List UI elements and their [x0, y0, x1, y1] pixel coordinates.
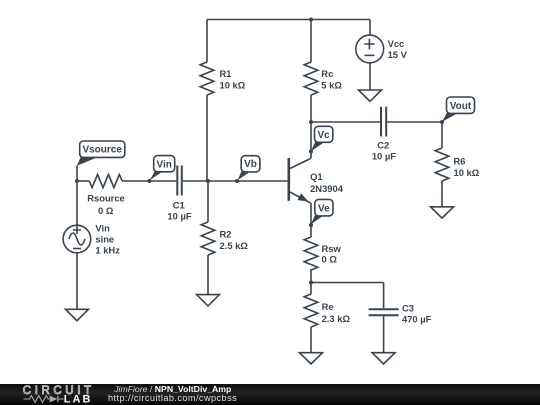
svg-text:10 kΩ: 10 kΩ	[220, 80, 246, 91]
svg-text:0 Ω: 0 Ω	[98, 205, 114, 216]
resistor Rc	[304, 62, 318, 95]
svg-text:Rsource: Rsource	[87, 193, 125, 204]
svg-text:0 Ω: 0 Ω	[322, 253, 338, 264]
svg-text:15 V: 15 V	[388, 49, 408, 60]
wire C2 to Vout node	[387, 121, 442, 123]
svg-text:2.5 kΩ: 2.5 kΩ	[220, 240, 249, 251]
voltage source Vin (sine)	[63, 225, 91, 253]
resistor Rsource	[89, 174, 122, 187]
wire R6 top lead	[441, 122, 443, 148]
capacitor C1	[177, 166, 182, 196]
node flag Vb	[238, 156, 260, 181]
svg-text:R1: R1	[220, 68, 232, 79]
wire C3 bottom lead	[383, 316, 385, 353]
resistor Re	[304, 294, 318, 327]
svg-text:Vb: Vb	[244, 159, 257, 170]
wire Rsource to C1	[122, 180, 176, 182]
junction node Vsource	[75, 179, 79, 183]
junction top rail / Rc	[309, 18, 313, 22]
svg-text:2.3 kΩ: 2.3 kΩ	[322, 313, 351, 324]
wire base (Vb node to Q1 base)	[208, 180, 289, 182]
svg-text:470 µF: 470 µF	[402, 314, 432, 325]
wire Vcc top lead	[369, 20, 371, 36]
svg-text:LAB: LAB	[64, 394, 93, 405]
wire R2 bottom lead	[207, 255, 209, 295]
wire R2 top lead	[207, 181, 209, 222]
node flag Vin	[150, 156, 175, 181]
ground under Re	[300, 353, 323, 364]
wire Vcc bottom lead	[369, 63, 371, 91]
capacitor C2	[381, 107, 386, 137]
ground under R2	[197, 295, 220, 306]
svg-text:Rsw: Rsw	[322, 243, 342, 254]
svg-text:Ve: Ve	[318, 203, 330, 214]
svg-text:10 kΩ: 10 kΩ	[454, 167, 480, 178]
wire emitter vertical	[310, 203, 312, 237]
wire Rsw bottom lead	[310, 269, 312, 283]
wire Vc node to C2	[311, 121, 380, 123]
ground under Vin source	[66, 309, 89, 320]
resistor R1	[200, 62, 214, 95]
wire top rail	[207, 19, 370, 21]
wire Rc bottom lead	[310, 95, 312, 122]
wire Vin source to ground	[76, 253, 78, 310]
svg-text:Vc: Vc	[317, 130, 330, 141]
svg-text:10 µF: 10 µF	[167, 210, 191, 221]
wire left node to Rsource	[77, 180, 89, 182]
wire Re node to C3	[311, 282, 384, 284]
svg-text:C3: C3	[402, 302, 414, 313]
junction Vc flag attach	[309, 150, 313, 154]
node flag Vsource	[77, 141, 125, 166]
junction node Vb (R1/R2 divider tap)	[206, 179, 210, 183]
wire R1 top lead	[206, 20, 208, 63]
svg-text:C2: C2	[377, 139, 389, 150]
svg-text:Re: Re	[322, 301, 334, 312]
wire R6 bottom lead	[441, 181, 443, 207]
node flag Vc	[311, 126, 333, 151]
ground under R6	[431, 207, 454, 218]
svg-text:R6: R6	[454, 155, 466, 166]
wire Vsource down to Vin source	[76, 181, 78, 226]
svg-text:2N3904: 2N3904	[310, 183, 344, 194]
wire R1 bottom lead	[206, 95, 208, 181]
node flag Vout	[442, 97, 474, 122]
wire Re bottom lead	[310, 327, 312, 353]
svg-text:Rc: Rc	[321, 68, 333, 79]
svg-text:Vin: Vin	[157, 159, 172, 170]
wire Rc drop from rail	[310, 20, 312, 63]
resistor Rsw	[304, 237, 318, 270]
svg-text:Vcc: Vcc	[388, 38, 405, 49]
junction node Vc	[309, 120, 313, 124]
svg-text:Vsource: Vsource	[82, 145, 122, 156]
wire C1 to Vb node	[183, 180, 208, 182]
wire C3 top lead	[383, 283, 385, 309]
resistor R2	[201, 222, 215, 255]
svg-text:sine: sine	[95, 234, 114, 245]
svg-text:1 kHz: 1 kHz	[95, 245, 120, 256]
svg-text:R2: R2	[220, 228, 232, 239]
ground under Vcc	[359, 90, 382, 101]
ground under C3	[372, 353, 395, 364]
junction node Vout	[440, 120, 444, 124]
svg-text:C1: C1	[173, 199, 185, 210]
svg-text:http://circuitlab.com/cwpcbss: http://circuitlab.com/cwpcbss	[108, 393, 237, 403]
wire Re top lead	[310, 283, 312, 295]
junction Vb flag attach	[235, 179, 239, 183]
resistor R6	[435, 148, 449, 181]
wire collector vertical	[310, 122, 312, 159]
svg-text:Vin: Vin	[95, 222, 110, 233]
svg-text:5 kΩ: 5 kΩ	[321, 80, 342, 91]
voltage source Vcc	[356, 35, 384, 63]
logo schematic row	[24, 396, 64, 403]
transistor Q1	[289, 158, 311, 203]
node flag Ve	[311, 199, 333, 224]
wire Vsource stub	[76, 166, 78, 182]
svg-text:10 µF: 10 µF	[372, 150, 396, 161]
junction node Ve	[309, 223, 313, 227]
junction node Vin	[148, 179, 152, 183]
footer bar	[0, 384, 540, 405]
junction node Re/C3	[309, 281, 313, 285]
svg-text:Q1: Q1	[310, 171, 323, 182]
capacitor C3	[369, 309, 399, 315]
svg-text:Vout: Vout	[450, 101, 472, 112]
